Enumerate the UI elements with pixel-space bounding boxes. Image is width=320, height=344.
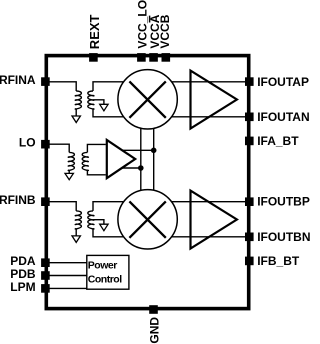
pin LO xyxy=(19,136,50,150)
pin VCCB xyxy=(158,14,172,61)
ground (TB center tap) xyxy=(100,224,108,231)
transformer TLO primary winding xyxy=(68,152,74,170)
wire TLO primary to ground xyxy=(68,170,70,173)
svg-text:LO: LO xyxy=(19,136,36,150)
mixer A X xyxy=(129,81,165,117)
svg-text:IFOUTAP: IFOUTAP xyxy=(257,75,309,89)
svg-text:PDB: PDB xyxy=(10,267,36,281)
svg-text:RFINA: RFINA xyxy=(0,73,36,87)
pin VCC_LO xyxy=(135,0,149,62)
transformer TA secondary winding xyxy=(88,91,94,109)
wire TB primary to ground xyxy=(75,229,77,236)
ground (TLO primary) xyxy=(65,173,73,179)
svg-text:IFB_BT: IFB_BT xyxy=(257,254,300,268)
wire TA secondary bottom to mixer A xyxy=(93,109,124,117)
svg-text:IFOUTBN: IFOUTBN xyxy=(257,230,310,244)
pin IFB_BT xyxy=(245,254,300,268)
junction dot LO+ xyxy=(151,148,157,154)
pin REXT xyxy=(87,14,102,61)
svg-text:Control: Control xyxy=(88,273,122,285)
svg-text:IFOUTBP: IFOUTBP xyxy=(257,195,310,209)
IF amp A xyxy=(191,71,237,129)
wire mixer A to IFOUTAN xyxy=(172,116,246,118)
wire LO to transformer TLO xyxy=(49,144,69,152)
svg-text:GND: GND xyxy=(147,317,161,344)
wire RFINB to transformer TB xyxy=(49,202,76,211)
wire LO amp output to LO+ rail xyxy=(122,149,154,151)
transformer TB primary winding xyxy=(75,211,81,229)
mixer A circle xyxy=(118,70,177,129)
transformer TA primary winding xyxy=(75,91,81,109)
wire TB secondary center tap xyxy=(94,220,104,225)
wire TB secondary top to mixer B xyxy=(93,202,124,211)
wire LPM to power control xyxy=(49,287,87,289)
wire TB secondary bottom to mixer B xyxy=(93,229,124,237)
IF amp B xyxy=(191,191,237,249)
wire PDB to power control xyxy=(49,275,87,277)
wire TA secondary center tap xyxy=(94,100,104,105)
pin VCCA (A has overbar) xyxy=(148,14,162,61)
pin LPM xyxy=(10,280,49,294)
wire LO- rail mixer A to mixer B xyxy=(140,129,142,191)
wire TA primary to ground xyxy=(75,109,77,116)
pin IFOUTAN xyxy=(245,110,310,124)
wire mixer B to IFOUTBP xyxy=(172,201,246,203)
IC outline xyxy=(46,56,248,309)
wire mixer A to IFOUTAP xyxy=(172,81,246,83)
power control block xyxy=(87,255,129,289)
pin IFA_BT xyxy=(245,134,299,148)
wire RFINA to transformer TA xyxy=(49,82,76,91)
wire mixer B to IFOUTBN xyxy=(172,236,246,238)
pin RFINA xyxy=(0,73,50,87)
svg-text:IFOUTAN: IFOUTAN xyxy=(257,110,309,124)
junction dot LO- xyxy=(138,165,144,171)
svg-text:VCCB: VCCB xyxy=(158,14,172,48)
svg-text:LPM: LPM xyxy=(10,280,35,294)
wire LO amp output to LO- rail xyxy=(122,167,141,169)
pin IFOUTBN xyxy=(245,230,311,244)
transformer TLO secondary winding xyxy=(82,152,88,170)
wire TLO secondary bottom to LO amp xyxy=(87,170,105,175)
pin IFOUTBP xyxy=(245,195,310,209)
svg-text:RFINB: RFINB xyxy=(0,193,36,207)
svg-text:Power: Power xyxy=(88,260,117,272)
pin PDB xyxy=(10,267,49,281)
svg-text:IFA_BT: IFA_BT xyxy=(257,134,299,148)
ground (TA primary) xyxy=(72,116,80,123)
mixer B circle xyxy=(118,190,177,249)
wire TLO secondary top to LO amp xyxy=(87,144,105,152)
wire PDA to power control xyxy=(49,262,87,264)
transformer TB secondary winding xyxy=(88,211,94,229)
ground (TB primary) xyxy=(72,236,80,243)
pin PDA xyxy=(10,254,49,268)
wire LO+ rail mixer A to mixer B xyxy=(153,129,155,190)
pin RFINB xyxy=(0,193,50,207)
mixer B X xyxy=(129,201,165,237)
wire TA secondary top to mixer A xyxy=(93,82,124,91)
pin IFOUTAP xyxy=(245,75,309,89)
pin GND xyxy=(147,305,161,343)
svg-text:REXT: REXT xyxy=(87,14,102,49)
LO amp xyxy=(107,140,135,178)
ground (TA center tap) xyxy=(100,104,108,111)
